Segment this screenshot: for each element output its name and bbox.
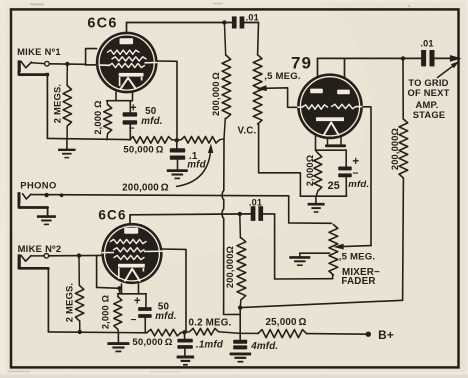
capacitor C9 4 mfd bbox=[233, 340, 247, 350]
wire V2 top coupling line bbox=[130, 213, 251, 216]
resistor R6 200000 bbox=[222, 23, 231, 139]
capacitor C3 .01 bbox=[224, 16, 258, 28]
label plus C7 bbox=[134, 295, 141, 307]
wire 79 grid2 to mixer wiper bbox=[333, 107, 371, 250]
svg-text:.01: .01 bbox=[420, 39, 433, 49]
capacitor C8 .1 mfd bbox=[177, 332, 192, 356]
label 200,000 ohm (R6) bbox=[211, 72, 221, 116]
svg-text:2 MEGS.: 2 MEGS. bbox=[64, 283, 75, 322]
node B+ terminal bbox=[366, 332, 371, 337]
wire 79 heater leads bbox=[325, 137, 346, 147]
wire phono sleeve to ground bbox=[47, 208, 49, 216]
label minus C4 bbox=[352, 168, 358, 179]
wire phono line to mixer bbox=[31, 193, 332, 223]
label 2 MEGS (R1) bbox=[52, 84, 63, 123]
label 25 mfd (C4) bbox=[328, 179, 370, 192]
wire V1 grid cap to coupling line bbox=[127, 23, 225, 44]
wire C6 to mixer pot bbox=[263, 214, 333, 279]
node supply junction bbox=[238, 305, 242, 309]
label .01 (C5) bbox=[420, 39, 433, 49]
capacitor C7 50 mfd bbox=[138, 294, 152, 333]
ground G3 bbox=[37, 217, 56, 225]
svg-text:2 MEGS.: 2 MEGS. bbox=[52, 84, 63, 123]
label 6C6 (V2) bbox=[98, 207, 126, 222]
label TO GRID OF NEXT AMP STAGE bbox=[407, 77, 449, 120]
label .5 MEG (R15) bbox=[339, 252, 376, 263]
resistor R10 2000 bbox=[114, 294, 122, 332]
ground G4 bbox=[308, 204, 325, 212]
label 0.2 MEG (R12) bbox=[189, 318, 232, 329]
wire sleeve2 down bbox=[47, 268, 49, 332]
label MIKE No2 bbox=[18, 243, 62, 254]
label 25,000 ohm (R14) bbox=[265, 317, 306, 328]
node phono tip bbox=[44, 193, 48, 197]
wire V2 grid cap lead bbox=[129, 215, 131, 228]
label 2 MEGS (R9) bbox=[64, 283, 75, 322]
svg-text:200,000Ω: 200,000Ω bbox=[225, 246, 235, 288]
node output junction bbox=[401, 56, 405, 60]
potentiometer 50000 ohm (R11) bbox=[147, 329, 181, 336]
svg-text:50,000 Ω: 50,000 Ω bbox=[132, 337, 172, 348]
svg-text:STAGE: STAGE bbox=[413, 109, 446, 120]
jack J3 MIKE No2 bbox=[18, 254, 49, 269]
svg-text:MIKE Nº1: MIKE Nº1 bbox=[17, 46, 61, 57]
label minus C1 bbox=[129, 123, 135, 134]
svg-text:FADER: FADER bbox=[341, 276, 375, 287]
wire R8 to supply node bbox=[240, 300, 402, 307]
wire ground stub mike1 bbox=[66, 138, 68, 149]
node bus1 junction bbox=[175, 138, 179, 142]
svg-text:+: + bbox=[134, 295, 141, 307]
label 6C6 (V1) bbox=[87, 16, 117, 32]
potentiometer mixer-fader .5 MEG (R15) bbox=[329, 225, 338, 279]
wire 79 plate leads bbox=[318, 58, 345, 91]
svg-text:.01: .01 bbox=[246, 12, 259, 22]
label V.C. bbox=[238, 126, 257, 137]
label B+ bbox=[378, 328, 394, 342]
svg-text:B+: B+ bbox=[378, 328, 394, 342]
svg-text:,5 MEG.: ,5 MEG. bbox=[264, 71, 301, 82]
node R9 bottom bbox=[78, 330, 82, 334]
resistor R9 2 MEGS bbox=[75, 256, 83, 332]
ground G6 bbox=[107, 344, 129, 352]
svg-text:OF NEXT: OF NEXT bbox=[407, 87, 449, 98]
wire J3 sleeve bbox=[19, 267, 49, 269]
label 50 mfd (C7) bbox=[155, 301, 176, 322]
label 2000 ohm (R10) bbox=[101, 295, 111, 329]
tube V2 6C6 envelope and electrodes bbox=[101, 223, 162, 284]
svg-text:mfd.: mfd. bbox=[348, 179, 369, 190]
potentiometer VC .5 MEG (R5) bbox=[253, 55, 262, 124]
node line2 junction bbox=[238, 212, 242, 216]
svg-text:25,000 Ω: 25,000 Ω bbox=[265, 317, 306, 328]
resistor R14 25000 bbox=[240, 330, 306, 338]
node mike1 tip junction bbox=[65, 62, 69, 66]
label .1mfd (C8) bbox=[196, 339, 224, 350]
capacitor C1 50 mfd bbox=[123, 101, 137, 140]
capacitor C4 25 mfd bbox=[338, 150, 352, 196]
svg-text:PHONO: PHONO bbox=[20, 180, 56, 191]
resistor R1 2 MEGS bbox=[63, 64, 71, 138]
wire phono sleeve bbox=[19, 202, 48, 208]
node bus2 junction bbox=[182, 330, 186, 334]
jack J2 PHONO bbox=[18, 192, 31, 203]
resistor R8 200000 bbox=[399, 58, 408, 300]
wire V1 cathode leads bbox=[107, 92, 133, 101]
wire ground stub bus2 bbox=[117, 332, 119, 343]
label minus C7 bbox=[130, 315, 136, 326]
wire mixer ground tap bbox=[300, 253, 330, 256]
label .01 (C3) bbox=[246, 12, 259, 22]
resistor R12 0.2 MEG bbox=[181, 328, 240, 335]
potentiometer 50000 ohm (R3) bbox=[130, 137, 173, 144]
wire supply node down bbox=[239, 308, 241, 340]
jack J1 MIKE No1 bbox=[18, 60, 50, 72]
capacitor C5 .01 bbox=[421, 50, 434, 66]
svg-text:,5 MEG.: ,5 MEG. bbox=[339, 252, 376, 263]
label plus C4 bbox=[352, 156, 359, 168]
svg-text:2,000Ω: 2,000Ω bbox=[305, 155, 315, 187]
svg-text:mfd: mfd bbox=[187, 159, 206, 170]
svg-text:25: 25 bbox=[328, 180, 340, 192]
node mike2 tip junction bbox=[77, 253, 81, 257]
svg-text:200,000 Ω: 200,000 Ω bbox=[122, 183, 169, 194]
ground G8 bbox=[230, 354, 252, 362]
label PHONO bbox=[20, 180, 56, 191]
svg-text:mfd.: mfd. bbox=[141, 116, 162, 127]
svg-text:50,000 Ω: 50,000 Ω bbox=[123, 144, 163, 155]
label 200,000 ohm with arrow (R4) bbox=[122, 143, 214, 193]
ground G7 bbox=[177, 357, 195, 365]
label 50,000 ohm (R3) bbox=[123, 144, 163, 155]
label 200,000 (R13) bbox=[225, 246, 235, 288]
wire ground stub 79 bbox=[315, 196, 317, 204]
svg-text:200,000 Ω: 200,000 Ω bbox=[211, 72, 221, 116]
svg-text:mfd.: mfd. bbox=[155, 311, 176, 322]
label plus C1 bbox=[130, 103, 137, 115]
resistor R13 200000 bbox=[237, 214, 246, 308]
resistor R7 2000 bbox=[314, 150, 322, 196]
label MIXER-FADER bbox=[341, 267, 380, 287]
svg-text:2,000 Ω: 2,000 Ω bbox=[101, 295, 111, 329]
tube V1 6C6 envelope and electrodes bbox=[96, 32, 158, 94]
svg-text:79: 79 bbox=[291, 54, 312, 73]
wire 79 ground bus bbox=[300, 195, 346, 197]
wire VC bottom to ground bus bbox=[259, 124, 301, 196]
wire V2 cathode leads bbox=[118, 284, 146, 294]
label 4mfd (C9) bbox=[250, 341, 278, 352]
wire sleeve down to ground bus bbox=[46, 75, 48, 139]
svg-text:6C6: 6C6 bbox=[98, 207, 126, 222]
svg-text:−: − bbox=[129, 123, 135, 134]
label .01 (C6) bbox=[249, 197, 262, 207]
ground G2 bbox=[167, 171, 188, 179]
wire VC wiper to 79 grid bbox=[256, 85, 297, 107]
wire J1 sleeve bbox=[19, 72, 49, 76]
label .5 MEG (VC) bbox=[264, 71, 301, 82]
svg-text:+: + bbox=[352, 156, 359, 168]
capacitor C2 .1 mfd bbox=[170, 140, 185, 170]
svg-text:−: − bbox=[130, 315, 136, 326]
label 50,000 ohm (R11) bbox=[132, 337, 172, 348]
label 79 (V3) bbox=[291, 54, 312, 73]
wire V2 grid bracket bbox=[97, 255, 120, 288]
svg-text:4mfd.: 4mfd. bbox=[250, 341, 278, 352]
svg-text:−: − bbox=[352, 168, 358, 179]
resistor R2 2000 bbox=[104, 101, 112, 140]
label 50 mfd (C1) bbox=[141, 106, 162, 127]
wire V1 grid bracket bbox=[86, 49, 98, 65]
svg-text:.01: .01 bbox=[249, 197, 262, 207]
label 200,000 ohm (R8) bbox=[390, 128, 400, 170]
svg-text:0.2 MEG.: 0.2 MEG. bbox=[189, 318, 232, 329]
tube V3 79 envelope and electrodes bbox=[297, 73, 363, 139]
annotation arrow bbox=[438, 59, 461, 78]
svg-text:6C6: 6C6 bbox=[87, 16, 117, 32]
wire R6 tail crossing buses bbox=[222, 139, 240, 315]
arrow to next stage bbox=[450, 55, 462, 62]
wire to B+ terminal bbox=[307, 333, 367, 336]
wire ground bus 1 bbox=[47, 138, 129, 139]
wire 79 cathode lead bbox=[316, 136, 347, 150]
ground G5 bbox=[289, 257, 310, 265]
svg-text:2,000 Ω: 2,000 Ω bbox=[93, 100, 103, 134]
svg-text:.1mfd: .1mfd bbox=[196, 339, 224, 350]
resistor 200000 ohm horizontal (R4) bbox=[172, 137, 224, 144]
capacitor C6 .01 bbox=[251, 206, 263, 221]
wire 79 plate output line bbox=[318, 57, 452, 59]
wire V2 plate lead right bbox=[162, 249, 186, 331]
ground G1 bbox=[58, 150, 76, 158]
label .1 mfd (C2) bbox=[187, 151, 206, 171]
wire C3 to VC pot bbox=[257, 23, 260, 55]
svg-text:MIKE Nº2: MIKE Nº2 bbox=[18, 243, 62, 254]
svg-text:V.C.: V.C. bbox=[238, 126, 257, 137]
wire J1 tip to grid bbox=[49, 63, 85, 66]
wire ground bus 2 bbox=[48, 331, 147, 334]
label 2,000 (R7) bbox=[305, 155, 315, 187]
wire J3 tip to grid bbox=[49, 254, 104, 256]
label MIKE No1 bbox=[17, 46, 61, 57]
label 2000 ohm (R2) bbox=[93, 100, 103, 134]
wire V1 plate lead right bbox=[157, 61, 177, 139]
node plate line junction bbox=[222, 20, 226, 24]
node V2 cathode junction bbox=[117, 286, 121, 290]
